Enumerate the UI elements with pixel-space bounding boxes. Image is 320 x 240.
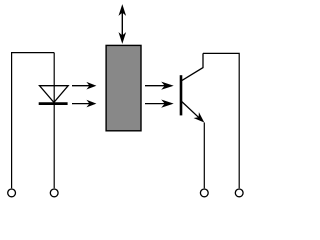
wire emitter down to terminal — [203, 123, 205, 189]
wire LED branch vertical — [53, 53, 55, 189]
phototransistor collector lead — [182, 53, 203, 80]
wire collector to top rail and right terminal — [203, 53, 239, 188]
light arrow 3 (shutter to phototransistor, top) — [145, 82, 174, 90]
phototransistor emitter lead with arrow — [182, 102, 205, 123]
light arrow 1 (LED to shutter, top) — [72, 82, 96, 90]
light arrow 2 (LED to shutter, bottom) — [72, 100, 96, 108]
phototransistor base bar — [180, 75, 183, 115]
motion double arrow — [119, 4, 127, 44]
terminal circle 4 (collector) — [235, 189, 243, 197]
terminal circle 2 (left cathode) — [50, 189, 58, 197]
shutter vane (movable opaque screen) — [106, 45, 141, 130]
light arrow 4 (shutter to phototransistor, bottom) — [145, 100, 174, 108]
wire left loop (anode side) — [12, 53, 55, 189]
LED (emitter diode) — [39, 86, 68, 104]
terminal circle 1 (left anode) — [8, 189, 16, 197]
terminal circle 3 (emitter) — [200, 189, 208, 197]
